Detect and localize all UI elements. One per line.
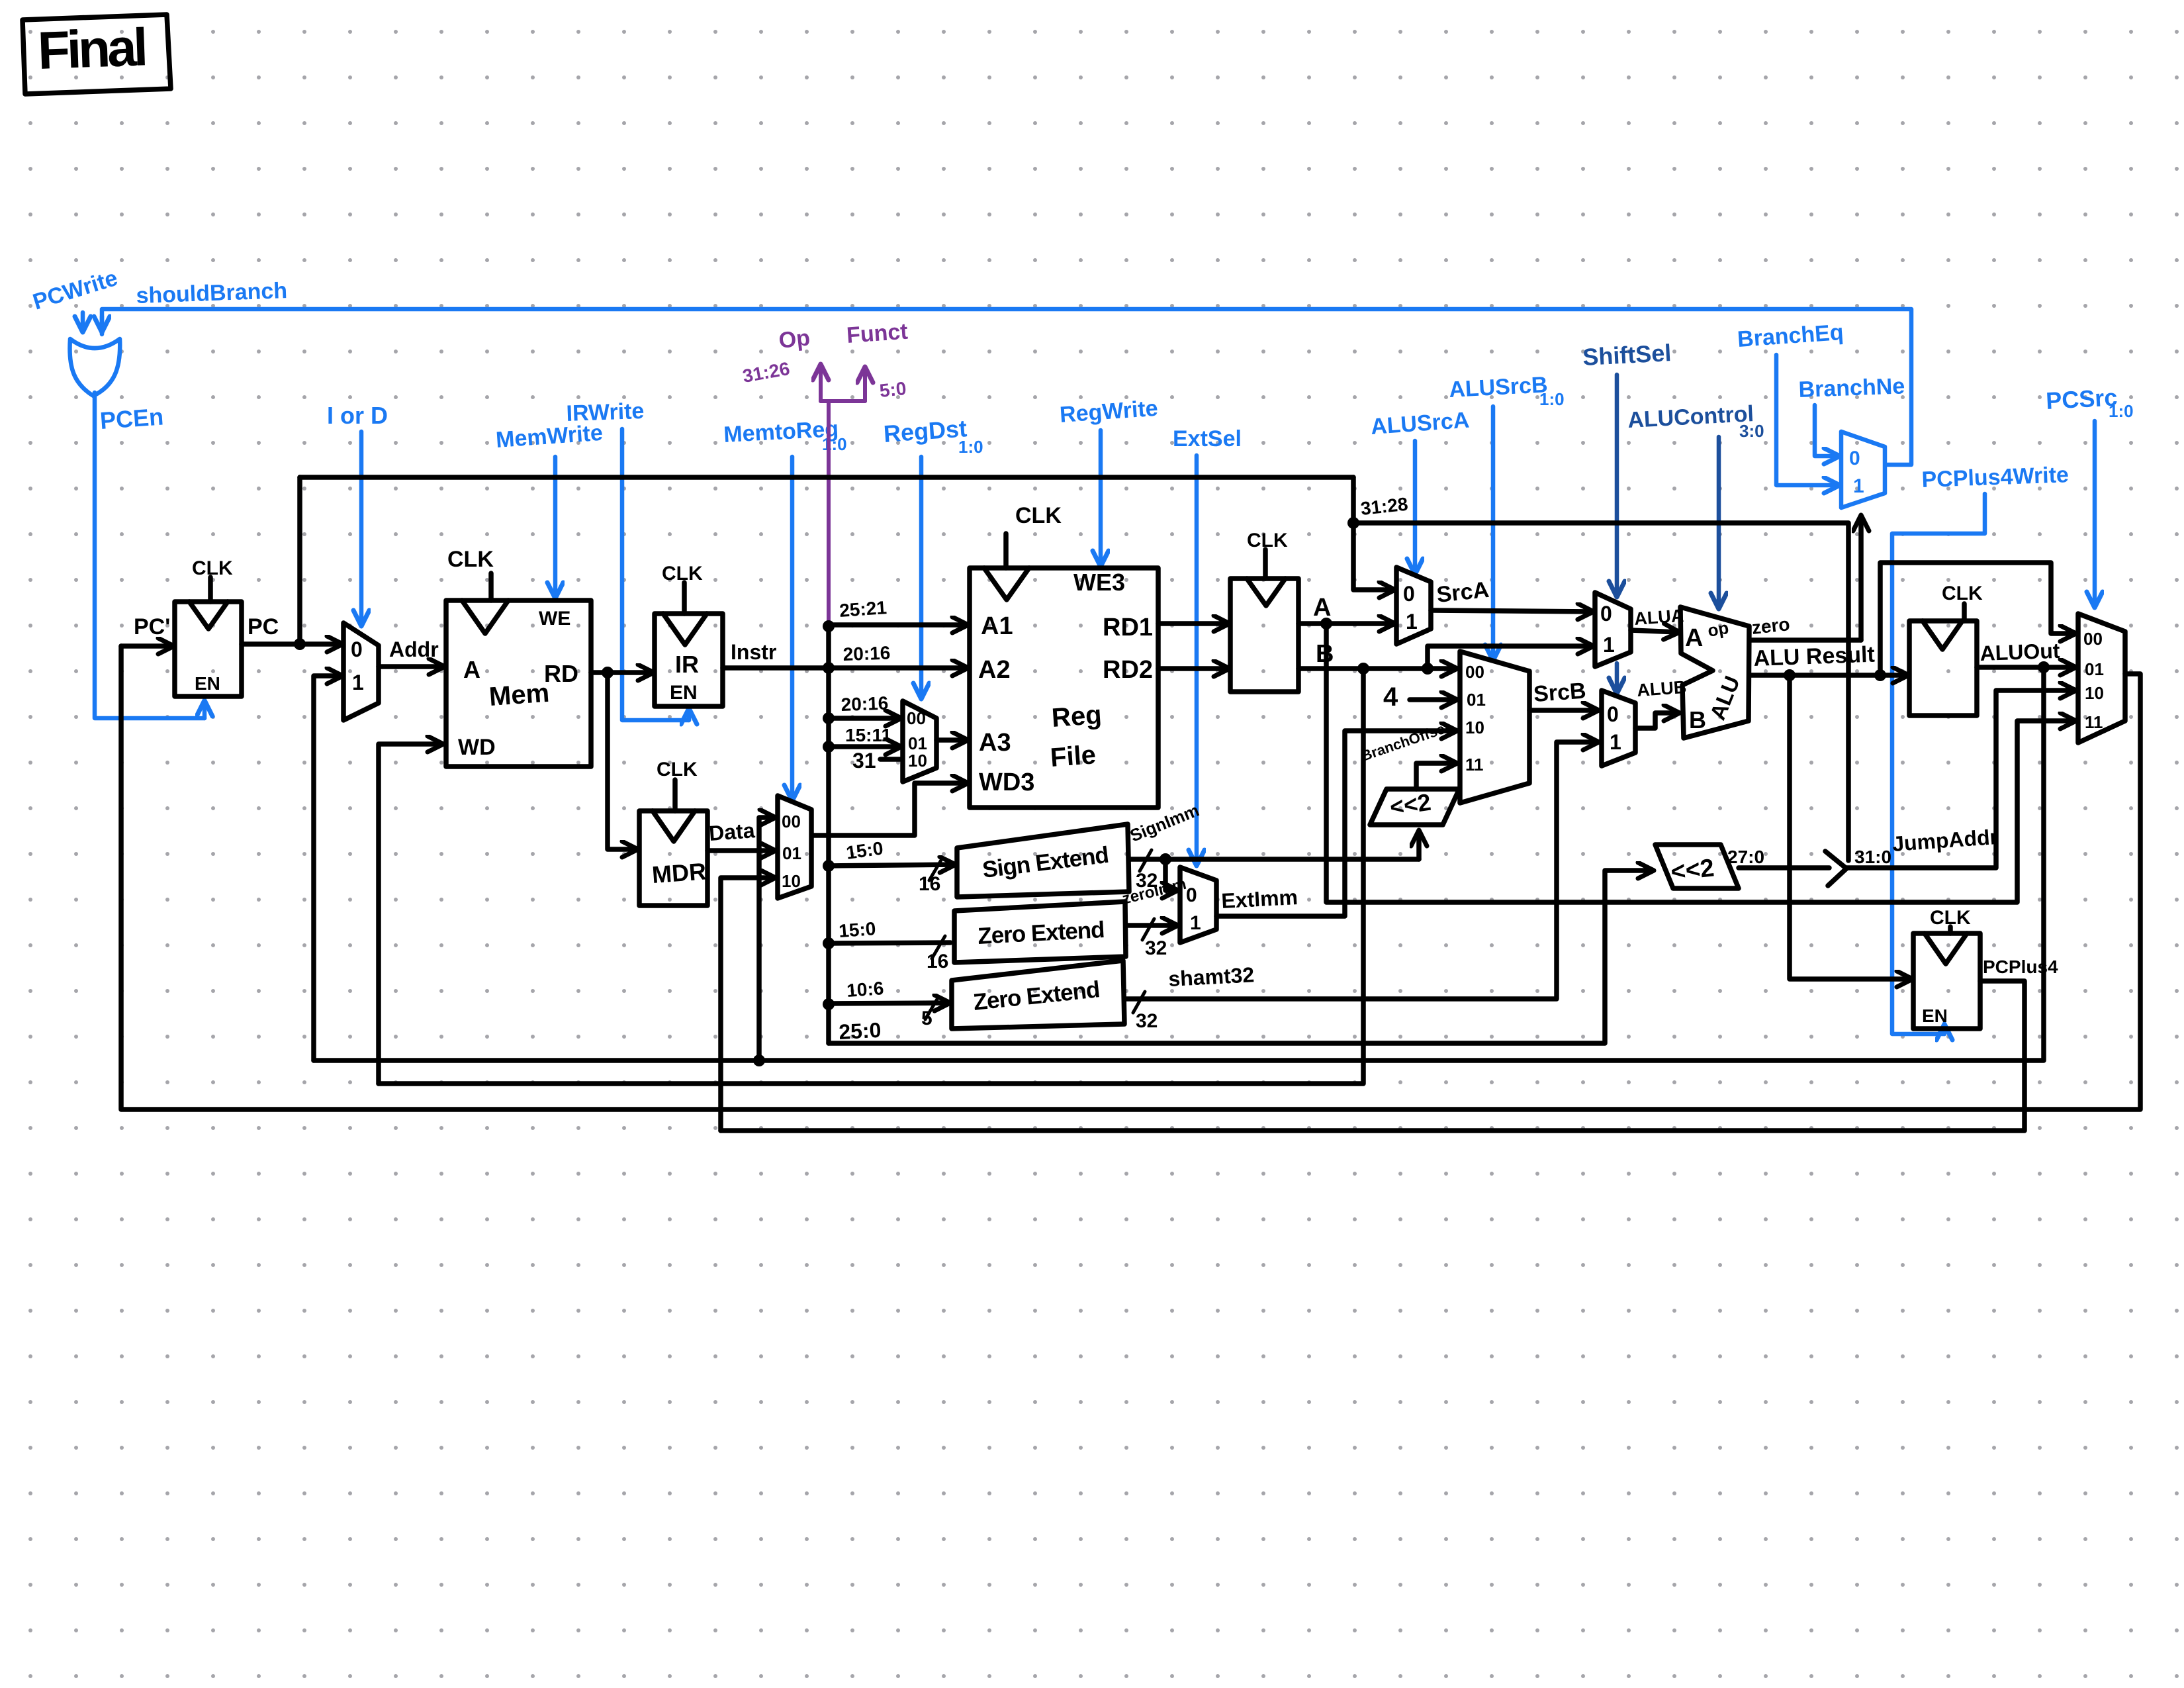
svg-text:B: B (1316, 640, 1334, 668)
svg-text:PCSrc: PCSrc (2045, 383, 2118, 414)
svg-text:ALUA: ALUA (1633, 606, 1684, 629)
wire rail down to SrcA mux (1353, 477, 1394, 590)
svg-text:PCPlus4: PCPlus4 (1983, 957, 2058, 977)
wire RD1 to AB reg (1158, 621, 1228, 626)
svg-text:Mem: Mem (488, 679, 551, 712)
node slice 20:16 RegDst (823, 712, 835, 724)
svg-text:IR: IR (675, 651, 699, 678)
wire JumpAddr to PCSrc 10 (1846, 690, 2075, 868)
svg-text:RD1: RD1 (1103, 614, 1153, 641)
svg-text:<<2: <<2 (1388, 788, 1432, 821)
wire SignImm to ExtImm mux 0 (1165, 859, 1177, 890)
svg-text:op: op (1706, 618, 1730, 641)
node B to ALUA mux (1422, 663, 1433, 675)
svg-text:WE: WE (539, 608, 570, 630)
wire SignImm up to branch shifter (1416, 831, 1422, 859)
svg-text:0: 0 (1849, 447, 1860, 469)
svg-text:ALU Result: ALU Result (1753, 642, 1875, 671)
svg-text:32: 32 (1136, 1010, 1158, 1032)
register MDR (639, 811, 707, 906)
svg-text:<<2: <<2 (1670, 854, 1716, 886)
svg-text:File: File (1050, 740, 1097, 773)
node slice 15:0 sign (823, 860, 835, 872)
svg-text:27:0: 27:0 (1727, 847, 1764, 867)
svg-text:PC: PC (248, 614, 279, 639)
svg-text:SrcB: SrcB (1533, 679, 1587, 707)
svg-text:A2: A2 (978, 656, 1011, 684)
wire PCEn to PC.EN (95, 393, 205, 718)
svg-text:WE3: WE3 (1073, 569, 1125, 596)
svg-text:01: 01 (782, 843, 801, 863)
register PCPlus4 (1913, 933, 1980, 1029)
wire A down to PCSrc 11 rail (1326, 624, 2075, 902)
memory Mem (446, 600, 591, 767)
wire IorD (359, 432, 364, 625)
mux IorD (343, 623, 379, 720)
svg-text:1: 1 (352, 671, 364, 694)
svg-text:CLK: CLK (1942, 583, 1983, 604)
node ALUResult to PCPlus4 (1784, 669, 1796, 681)
svg-text:10: 10 (908, 751, 927, 771)
svg-text:11: 11 (1465, 755, 1484, 774)
svg-text:1:0: 1:0 (2109, 401, 2134, 421)
wire PCPlus4Write to PCPlus4.EN (1892, 494, 1985, 1034)
wire PCSrc (2093, 421, 2097, 606)
svg-text:0: 0 (1607, 702, 1619, 726)
svg-text:1: 1 (1603, 633, 1615, 657)
wire PCWrite arrow (81, 312, 85, 331)
wire ExtSel (1195, 455, 1199, 865)
node 31:28 tap (1347, 517, 1359, 529)
wire ALUSrcA (1413, 441, 1418, 573)
svg-text:Addr: Addr (389, 637, 439, 661)
register ALUOut (1909, 621, 1977, 716)
extender Zero Extend (imm) (954, 902, 1126, 962)
shifter branch <<2 (1370, 789, 1459, 825)
wire Mem RD out (591, 670, 653, 675)
svg-text:00: 00 (1465, 662, 1484, 682)
node PC (294, 638, 306, 650)
svg-text:ALUSrcB: ALUSrcB (1448, 372, 1548, 402)
svg-text:1: 1 (1610, 730, 1621, 754)
svg-text:ALUB: ALUB (1636, 677, 1687, 700)
svg-text:EN: EN (1922, 1006, 1948, 1026)
node ALUResult to PCSrc00 (1874, 669, 1886, 681)
svg-text:Final: Final (36, 17, 146, 80)
svg-text:20:16: 20:16 (841, 693, 889, 715)
svg-text:1: 1 (1190, 912, 1201, 934)
shifter jump <<2 (1655, 845, 1739, 888)
svg-text:WD: WD (458, 735, 496, 760)
wire PCSrc out / PC-prime return rail (121, 646, 2140, 1109)
svg-text:3:0: 3:0 (1739, 421, 1764, 441)
node Instr bus top (823, 662, 835, 674)
wire PC up to top rail (297, 477, 302, 644)
wire ALUResult loop to PCSrc 00 (1880, 563, 2075, 675)
svg-text:A1: A1 (981, 612, 1013, 640)
wire top PC rail (300, 475, 1353, 480)
svg-text:1:0: 1:0 (1539, 389, 1565, 409)
wire ALUSrcB (1491, 406, 1496, 659)
register file RegFile (970, 568, 1158, 808)
wire WD3 input from MemtoReg mux (812, 783, 967, 835)
node B to Mem WD rail (1357, 663, 1369, 675)
svg-text:I or D: I or D (327, 402, 388, 429)
svg-text:A: A (1685, 624, 1703, 652)
svg-text:RD: RD (544, 660, 578, 687)
svg-text:EN: EN (195, 673, 220, 694)
svg-text:1:0: 1:0 (958, 437, 983, 457)
svg-text:IRWrite: IRWrite (566, 399, 645, 426)
svg-text:1: 1 (1853, 475, 1864, 497)
merge arrow 31:0 (1825, 851, 1846, 886)
svg-text:00: 00 (2083, 629, 2103, 649)
svg-text:PC': PC' (134, 614, 170, 639)
node RD out (602, 667, 614, 679)
svg-text:11: 11 (2085, 712, 2103, 732)
title box "Final" (23, 15, 171, 94)
mux branch (BranchEq/BranchNe select by zero) (1841, 432, 1885, 508)
wire PC-prime into PC (121, 643, 173, 649)
svg-text:ExtImm: ExtImm (1220, 885, 1298, 913)
svg-text:10: 10 (2085, 683, 2104, 703)
register A/B (1230, 579, 1298, 692)
wire Instr bus vertical (826, 625, 831, 1043)
svg-text:Op: Op (778, 325, 811, 353)
svg-text:CLK: CLK (447, 547, 494, 572)
svg-text:5:0: 5:0 (878, 378, 907, 401)
wire ALUResult down to PCPlus4 reg (1790, 675, 1911, 979)
svg-text:01: 01 (2085, 659, 2104, 679)
register IR (655, 614, 723, 706)
wire IRWrite to IR.EN (622, 429, 689, 720)
svg-text:31: 31 (852, 749, 876, 773)
wire shouldBranch top line (102, 309, 1911, 465)
svg-text:PCPlus4Write: PCPlus4Write (1921, 462, 2070, 492)
wire MemtoReg in10 from PCPlus4 rail (721, 878, 774, 1131)
svg-text:0: 0 (1186, 884, 1197, 906)
svg-text:4: 4 (1383, 682, 1398, 712)
mux MemtoReg (778, 796, 811, 898)
mux RegDst (903, 701, 936, 782)
svg-text:10: 10 (1465, 718, 1484, 737)
mux ALUA (ShiftSel) (1595, 592, 1631, 667)
svg-text:0: 0 (351, 637, 363, 661)
svg-text:EN: EN (670, 682, 698, 704)
wire ShiftSel to ALUB mux (1615, 663, 1619, 692)
svg-text:10: 10 (782, 871, 801, 891)
wire MemtoReg in00 from ALUOut rail (759, 818, 774, 1060)
svg-text:25:0: 25:0 (838, 1018, 882, 1044)
mux PCSrc (2078, 614, 2125, 743)
svg-text:RegDst: RegDst (883, 414, 968, 447)
svg-text:25:21: 25:21 (839, 597, 887, 621)
node slice 15:0 zero (823, 937, 835, 949)
node A (1320, 618, 1332, 630)
extender Zero Extend (shamt) (952, 961, 1124, 1029)
wire ALUOut down to return rail (314, 667, 2044, 1060)
svg-text:RD2: RD2 (1103, 656, 1153, 684)
node ALUOut (2038, 661, 2050, 673)
svg-text:CLK: CLK (1015, 503, 1062, 528)
svg-text:MDR: MDR (651, 857, 707, 888)
wire 31:28 to JumpAddr merge (1353, 523, 1848, 861)
wire ALUControl to ALU op (1717, 437, 1721, 608)
mux SrcB (ALUSrcB) (1460, 651, 1529, 803)
wire RD down to MDR (608, 673, 637, 849)
node slice 10:6 (823, 998, 835, 1010)
svg-text:15:11: 15:11 (845, 725, 891, 745)
wire jump shifter out to merge (1739, 865, 1829, 870)
wire Mem WD input from B rail (379, 744, 442, 1084)
svg-text:32: 32 (1145, 937, 1167, 959)
svg-text:1: 1 (1406, 610, 1418, 633)
svg-text:BranchNe: BranchNe (1798, 373, 1905, 402)
svg-text:15:0: 15:0 (838, 918, 876, 941)
wire MemWrite (553, 457, 558, 597)
svg-text:Data: Data (708, 818, 756, 845)
svg-text:16: 16 (927, 951, 948, 972)
wire RegWrite to WE3 (1099, 430, 1103, 565)
alu ALU (1680, 607, 1749, 738)
svg-text:00: 00 (782, 812, 801, 831)
svg-text:PCEn: PCEn (99, 402, 165, 434)
mux ALUB (ShiftSel) (1602, 690, 1635, 766)
wire zero up to branch mux select (1858, 516, 1864, 640)
wire ShiftSel to ALUA mux (1615, 375, 1619, 596)
svg-text:shamt32: shamt32 (1167, 962, 1255, 991)
wire BranchEq (1776, 355, 1839, 485)
svg-text:10:6: 10:6 (846, 978, 884, 1001)
wire RD2 to AB reg (1158, 666, 1228, 671)
wire B down rail to Mem WD (379, 669, 1363, 1084)
node slice 25:21 (823, 620, 835, 632)
svg-text:CLK: CLK (657, 759, 698, 780)
wire BranchNe (1815, 405, 1839, 456)
wire B up to ALUA mux 1 (1428, 646, 1592, 669)
OR gate PCEn (69, 339, 120, 396)
extender Sign Extend (957, 824, 1129, 897)
svg-text:shouldBranch: shouldBranch (136, 278, 288, 308)
svg-text:ShiftSel: ShiftSel (1582, 339, 1672, 371)
svg-text:zero: zero (1751, 614, 1791, 638)
wire branch shifter out to SrcB 11 (1416, 763, 1456, 789)
svg-text:0: 0 (1403, 582, 1415, 606)
wire RegDst mux out to A3 (936, 737, 967, 743)
svg-text:0: 0 (1600, 602, 1612, 626)
svg-text:B: B (1689, 706, 1706, 733)
wire Op/Funct bracket from Instr (819, 365, 823, 401)
wire IorD mux in1 from ALUOut rail (314, 676, 341, 1060)
wire RegDst (919, 457, 924, 698)
mux ExtImm (ExtSel) (1180, 867, 1216, 943)
node slice 15:11 (823, 741, 835, 753)
node SignImm (1160, 853, 1171, 865)
svg-text:ExtSel: ExtSel (1173, 426, 1242, 451)
svg-text:01: 01 (1467, 690, 1486, 710)
svg-text:Funct: Funct (846, 319, 909, 348)
svg-text:A3: A3 (979, 729, 1011, 757)
svg-text:1:0: 1:0 (822, 434, 847, 454)
mux SrcA (ALUSrcA) (1396, 567, 1431, 644)
svg-text:A: A (1313, 594, 1331, 622)
wire MemtoReg (790, 457, 795, 800)
svg-text:WD3: WD3 (979, 769, 1034, 796)
svg-text:20:16: 20:16 (842, 643, 891, 665)
node ALUOut rail tap (753, 1055, 765, 1066)
svg-text:Reg: Reg (1051, 700, 1103, 733)
svg-text:31:0: 31:0 (1854, 847, 1891, 867)
svg-text:Instr: Instr (731, 640, 776, 664)
svg-text:00: 00 (907, 708, 926, 728)
register PC (175, 602, 242, 696)
svg-text:ALUOut: ALUOut (1979, 639, 2060, 665)
svg-text:A: A (463, 656, 480, 683)
